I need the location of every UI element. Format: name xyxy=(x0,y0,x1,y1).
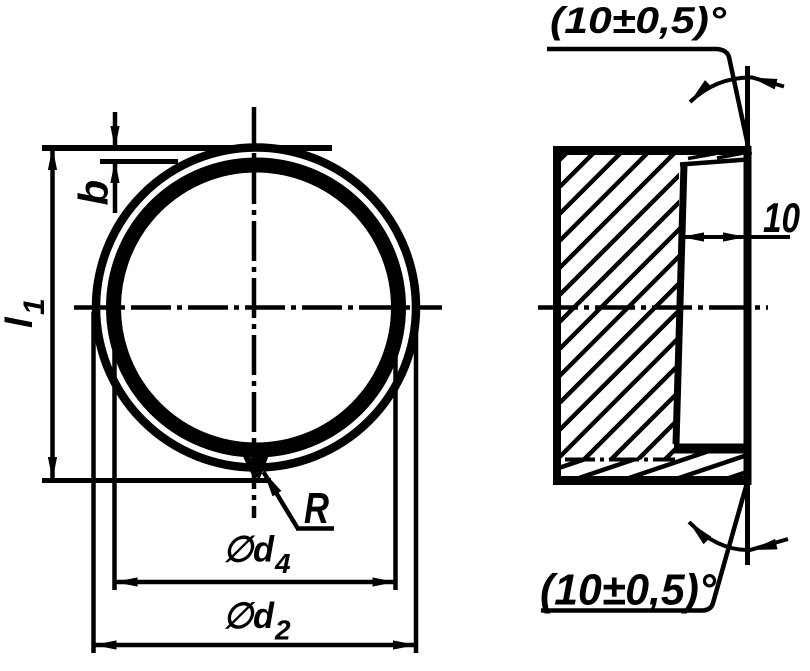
svg-text:10: 10 xyxy=(763,194,800,241)
svg-text:b: b xyxy=(70,180,117,206)
svg-text:1: 1 xyxy=(18,298,51,315)
svg-text:∅d: ∅d xyxy=(223,529,275,570)
svg-text:l: l xyxy=(0,316,41,328)
svg-text:2: 2 xyxy=(274,615,291,646)
svg-text:(10±0,5)°: (10±0,5)° xyxy=(540,566,716,615)
svg-text:4: 4 xyxy=(274,548,291,579)
svg-text:(10±0,5)°: (10±0,5)° xyxy=(550,0,726,41)
svg-text:R: R xyxy=(304,484,329,533)
svg-text:∅d: ∅d xyxy=(223,595,275,636)
